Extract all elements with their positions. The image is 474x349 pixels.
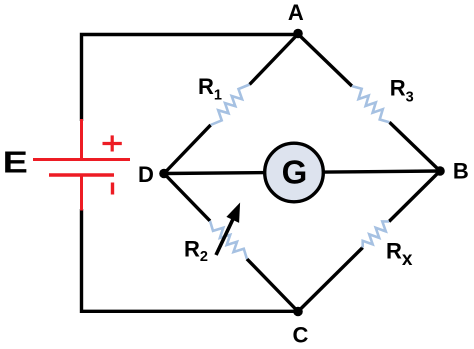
resistor R2 (variable) bbox=[210, 221, 247, 259]
battery plus sign bbox=[103, 135, 122, 151]
galvanometer G bbox=[265, 143, 324, 202]
arrow of variable resistor R2 bbox=[216, 203, 240, 256]
node A junction dot bbox=[293, 29, 303, 39]
svg-text:B: B bbox=[453, 159, 469, 184]
battery E negative plate bbox=[49, 173, 114, 176]
svg-text:A: A bbox=[288, 0, 304, 25]
wire: galvanometer branch D to B bbox=[164, 171, 440, 174]
wire: A to R3 bbox=[298, 34, 352, 86]
resistor R1 bbox=[211, 85, 250, 125]
wire: left vertical upper + top wire to node A bbox=[82, 35, 299, 122]
svg-text:C: C bbox=[293, 323, 309, 348]
battery E bottom red lead bbox=[80, 175, 83, 211]
svg-text:Rx: Rx bbox=[386, 239, 413, 270]
wire: R2 to C bbox=[247, 259, 298, 312]
resistor Rx bbox=[363, 221, 389, 247]
svg-text:G: G bbox=[282, 154, 308, 191]
node D junction dot bbox=[159, 169, 169, 179]
wire: C to Rx bbox=[298, 248, 363, 312]
wire: left vertical lower + bottom wire to node C bbox=[82, 209, 299, 311]
svg-text:D: D bbox=[138, 162, 154, 187]
wire: D to R2 bbox=[164, 174, 210, 221]
svg-text:R3: R3 bbox=[390, 76, 414, 106]
battery minus sign (vertical tick) bbox=[111, 183, 114, 195]
battery E top red lead bbox=[80, 119, 83, 160]
wire: R1 to D bbox=[164, 125, 211, 174]
battery E positive plate bbox=[33, 158, 130, 161]
node B junction dot bbox=[435, 166, 445, 176]
battery label E bbox=[3, 146, 28, 180]
svg-text:E: E bbox=[3, 146, 28, 180]
wire: A to R1 bbox=[250, 34, 299, 85]
svg-text:R1: R1 bbox=[198, 74, 222, 104]
resistor R3 bbox=[352, 86, 389, 122]
wire: Rx to B bbox=[389, 171, 440, 222]
wire: R3 to B bbox=[389, 122, 440, 171]
node C junction dot bbox=[293, 307, 303, 317]
svg-text:R2: R2 bbox=[184, 237, 208, 266]
